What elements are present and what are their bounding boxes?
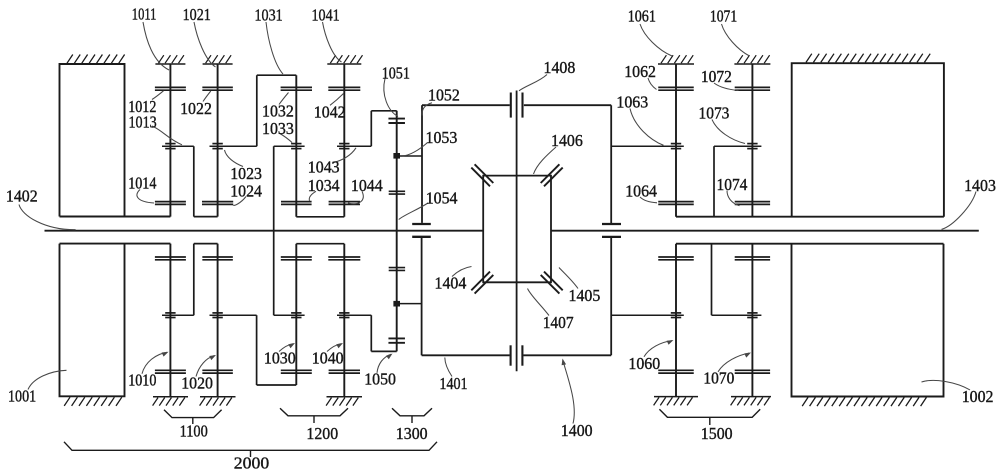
label 1023 bbox=[230, 164, 262, 183]
label 2000 bbox=[234, 454, 269, 473]
svg-text:1407: 1407 bbox=[543, 313, 574, 332]
drop from bottom rail bbox=[370, 315, 372, 351]
svg-text:1402: 1402 bbox=[6, 187, 38, 206]
frame 1401 bottom rail right of clutch 1400 bbox=[523, 354, 611, 356]
svg-text:1403: 1403 bbox=[964, 176, 996, 195]
leader 1021 bbox=[194, 22, 216, 67]
shaft 1031 bbox=[295, 75, 297, 217]
svg-text:1054: 1054 bbox=[426, 189, 458, 208]
svg-text:1021: 1021 bbox=[183, 5, 211, 24]
svg-text:1050: 1050 bbox=[364, 370, 396, 389]
shaft 1030 bbox=[295, 244, 297, 385]
rail from coupling to sleeve gear of 1070 bbox=[712, 314, 762, 316]
bevel gear mark lower-left (1404) bbox=[471, 272, 493, 294]
label 1010 bbox=[128, 371, 156, 390]
bracket 1500 bbox=[659, 409, 760, 425]
sleeve gear on shaft 1060 bbox=[671, 313, 681, 318]
rail to gear on shaft 1040 bbox=[337, 314, 371, 316]
gear 1010 lower bbox=[155, 370, 186, 373]
ground under shaft 1010 bbox=[153, 397, 188, 406]
shaft 1040 bbox=[343, 244, 345, 397]
svg-text:1013: 1013 bbox=[129, 113, 157, 132]
label 1073 bbox=[699, 103, 730, 122]
label 1002 bbox=[962, 387, 994, 406]
housing wall 1002 upper-right box bbox=[792, 63, 944, 217]
gear 1012 bbox=[155, 87, 186, 90]
label 1405 bbox=[569, 286, 601, 305]
label 1024 bbox=[230, 181, 262, 200]
input shaft 1402 (left half of main line) bbox=[45, 230, 484, 232]
frame 1052 right column bbox=[610, 105, 612, 223]
leader 1032 bbox=[279, 93, 289, 105]
label 1011 bbox=[132, 4, 157, 23]
svg-text:1408: 1408 bbox=[544, 58, 576, 77]
svg-text:1053: 1053 bbox=[426, 128, 458, 147]
shaft 1041 bbox=[343, 64, 345, 217]
link from node 1053 to frame 1052 bbox=[397, 155, 422, 157]
gear 1064 bbox=[658, 202, 694, 205]
housing wall 1001 lower-left box bbox=[60, 244, 171, 397]
gear 1072 bbox=[735, 87, 770, 90]
label 1051 bbox=[382, 64, 410, 83]
leader 1053 bbox=[403, 143, 428, 156]
leader 1400 with arrow bbox=[562, 359, 575, 424]
label 1403 bbox=[964, 176, 996, 195]
coupling drop from gear 1013 bbox=[193, 146, 195, 216]
planet carrier frame 1406 bbox=[483, 176, 551, 283]
ground under shaft 1040 bbox=[326, 397, 362, 406]
shaft 1050 bbox=[396, 111, 398, 352]
label 1014 bbox=[128, 174, 157, 193]
leader 1041 bbox=[323, 22, 342, 62]
leader 1022 bbox=[203, 91, 211, 102]
bracket 1200 bbox=[280, 408, 348, 423]
shaft 1070 bbox=[751, 244, 753, 397]
sleeve gear on shaft 1020 bbox=[210, 313, 257, 318]
gear 1033 (sleeve gear) bbox=[274, 144, 305, 149]
svg-text:1023: 1023 bbox=[230, 164, 262, 183]
label 1054 bbox=[426, 189, 458, 208]
shaft 1020 bbox=[217, 244, 219, 397]
gear 1032 bbox=[281, 87, 312, 90]
gear 1063 (sleeve gear) bbox=[671, 144, 681, 149]
label 1022 bbox=[180, 99, 212, 118]
fixed support for shaft 1021 bbox=[203, 55, 233, 64]
frame 1052 top rail left of clutch 1408 bbox=[422, 104, 510, 106]
svg-text:1060: 1060 bbox=[628, 354, 660, 373]
sleeve gear on shaft 1010 bbox=[162, 313, 194, 318]
svg-text:1071: 1071 bbox=[710, 7, 737, 26]
rail from coupling to gear 1073 bbox=[714, 145, 761, 147]
svg-text:1406: 1406 bbox=[551, 131, 583, 150]
label 1052 bbox=[428, 86, 460, 105]
gear 1073 (sleeve gear) bbox=[747, 144, 757, 149]
leader 1051 bbox=[384, 79, 398, 117]
gear 1060 lower bbox=[658, 370, 694, 373]
svg-text:1061: 1061 bbox=[628, 7, 656, 26]
svg-text:1041: 1041 bbox=[312, 6, 340, 25]
label 1072 bbox=[701, 67, 732, 86]
leader 1034 bbox=[309, 191, 316, 201]
leader 1405 bbox=[559, 268, 578, 289]
leader 1024 bbox=[233, 197, 246, 206]
leader 1064 bbox=[640, 197, 657, 203]
frame 1052 left column bbox=[421, 105, 423, 223]
svg-text:1022: 1022 bbox=[180, 99, 212, 118]
leader 1060 with arrow bbox=[644, 340, 674, 357]
gear below main line on shaft 1050 bbox=[389, 268, 405, 271]
gear 1062 bbox=[658, 87, 694, 90]
bevel gear mark upper-left (1406) bbox=[471, 164, 493, 186]
label 1074 bbox=[717, 175, 748, 194]
bevel gear mark lower-right (1405) bbox=[541, 272, 563, 294]
bevel gear mark upper-right (1406) bbox=[541, 164, 563, 186]
frame 1401 bottom rail left of clutch 1400 bbox=[422, 354, 510, 356]
output shaft 1403 (right half of main line) bbox=[551, 230, 979, 232]
svg-text:1405: 1405 bbox=[569, 286, 601, 305]
svg-text:1400: 1400 bbox=[561, 421, 593, 440]
svg-text:1030: 1030 bbox=[264, 348, 296, 367]
svg-text:1500: 1500 bbox=[701, 424, 733, 443]
sleeve gear on shaft 1040 bbox=[339, 313, 349, 318]
bracket 2000 bbox=[64, 442, 437, 457]
pinion on main line left (lower) bbox=[412, 236, 431, 238]
gear 1024 bbox=[202, 202, 233, 205]
svg-text:2000: 2000 bbox=[234, 454, 269, 473]
shaft 1061 bbox=[675, 64, 677, 217]
label 1070 bbox=[703, 369, 734, 388]
gear 1014 bbox=[155, 202, 186, 205]
leader 1013 bbox=[152, 126, 182, 145]
label 1200 bbox=[306, 424, 338, 443]
leader 1408 bbox=[519, 75, 547, 91]
sleeve gear on shaft 1070 bbox=[747, 313, 757, 318]
leader 1031 bbox=[266, 22, 283, 74]
svg-text:1001: 1001 bbox=[8, 387, 36, 406]
label 1044 bbox=[351, 176, 383, 195]
leader 1044 bbox=[348, 191, 363, 203]
leader 1030 with arrow bbox=[279, 343, 295, 352]
gear 1070 lower bbox=[735, 370, 770, 373]
pinion on main line right (lower) bbox=[602, 236, 621, 238]
housing wall 1001 upper-left box bbox=[60, 64, 171, 217]
fixed support for shaft 1011 bbox=[155, 55, 185, 64]
frame 1052 top rail right of clutch 1408 bbox=[524, 104, 611, 106]
svg-text:1024: 1024 bbox=[230, 181, 262, 200]
coupling drop between 1063 and 1073 bbox=[713, 146, 715, 217]
label 1030 bbox=[264, 348, 296, 367]
leader 1002 bbox=[922, 380, 971, 389]
svg-text:1032: 1032 bbox=[262, 102, 294, 121]
svg-text:1300: 1300 bbox=[396, 424, 428, 443]
label 1012 bbox=[128, 97, 156, 116]
leader 1072 bbox=[714, 83, 739, 91]
svg-text:1043: 1043 bbox=[308, 157, 340, 176]
label 1033 bbox=[262, 119, 294, 138]
label 1001 bbox=[8, 387, 36, 406]
synchronizer 1051 bbox=[388, 119, 405, 123]
label 1061 bbox=[628, 7, 656, 26]
gear 1054 bbox=[389, 191, 405, 194]
gear on shaft 1010 upper bbox=[155, 257, 186, 260]
bracket 1031 top rail bbox=[257, 74, 297, 76]
shaft 1010 bbox=[169, 244, 171, 397]
gear 1043 (sleeve gear) bbox=[337, 144, 371, 149]
gear 1022 bbox=[202, 87, 233, 90]
leader 1010 with arrow bbox=[142, 352, 169, 374]
pinion on main line left (upper) bbox=[412, 223, 431, 225]
label 1402 bbox=[6, 187, 38, 206]
leader 1052 bbox=[422, 103, 432, 116]
hub line to shaft 1020 bbox=[194, 243, 218, 245]
label 1400 bbox=[561, 421, 593, 440]
bracket 1031 riser bbox=[256, 75, 258, 146]
gear on shaft 1070 upper bbox=[735, 257, 770, 260]
leader 1406 bbox=[534, 147, 557, 174]
label 1042 bbox=[314, 102, 346, 121]
gear 1040 lower bbox=[329, 370, 360, 373]
label 1500 bbox=[701, 424, 733, 443]
sleeve gear on shaft 1030 bbox=[274, 313, 305, 318]
ground under shaft 1060 bbox=[654, 397, 698, 406]
label 1408 bbox=[544, 58, 576, 77]
leader 1011 bbox=[143, 22, 169, 70]
gear on shaft 1020 upper bbox=[202, 257, 233, 260]
gear 1023 (sleeve gear) bbox=[210, 144, 257, 149]
node 1053 (junction) bbox=[393, 153, 400, 159]
leader 1070 with arrow bbox=[718, 353, 751, 372]
label 1071 bbox=[710, 7, 737, 26]
label 1041 bbox=[312, 6, 340, 25]
hatching above housing 1001 bbox=[67, 55, 125, 64]
label 1040 bbox=[312, 348, 344, 367]
label 1034 bbox=[308, 176, 340, 195]
label 1053 bbox=[426, 128, 458, 147]
svg-text:1033: 1033 bbox=[262, 119, 294, 138]
gear 1030 lower bbox=[281, 370, 312, 373]
bottom rail top-right section bbox=[676, 216, 944, 218]
coupling drop from gear 1033 through main line bbox=[273, 146, 275, 315]
gear on shaft 1060 upper bbox=[658, 257, 694, 260]
shaft 1021 bbox=[217, 64, 219, 217]
label 1043 bbox=[308, 157, 340, 176]
clutch 1400 bbox=[511, 345, 523, 365]
coupling drop to sleeve of 1010 bbox=[193, 244, 195, 316]
svg-text:1062: 1062 bbox=[624, 62, 656, 81]
hatching below lower-left housing bbox=[64, 397, 122, 406]
label 1064 bbox=[625, 182, 657, 201]
svg-text:1063: 1063 bbox=[616, 93, 648, 112]
bottom rail from shaft 1050 bbox=[371, 350, 396, 352]
leader 1073 bbox=[712, 120, 745, 144]
bracket 1300 bbox=[392, 408, 432, 423]
label 1401 bbox=[439, 374, 467, 393]
leader 1040 with arrow bbox=[327, 343, 343, 352]
fixed support for shaft 1041 bbox=[327, 55, 362, 64]
bracket 1100 bbox=[164, 410, 222, 424]
label 1020 bbox=[181, 374, 213, 393]
svg-text:1034: 1034 bbox=[308, 176, 340, 195]
svg-text:1073: 1073 bbox=[699, 103, 730, 122]
link from lower node to frame 1401 bbox=[397, 303, 422, 305]
svg-text:1040: 1040 bbox=[312, 348, 344, 367]
gear 1020 lower bbox=[202, 370, 233, 373]
ground under shaft 1070 bbox=[731, 397, 771, 406]
gear 1013 (sleeve gear) bbox=[162, 144, 194, 149]
pinion on main line right (upper) bbox=[602, 223, 621, 225]
leader 1061 bbox=[640, 24, 672, 56]
svg-text:1044: 1044 bbox=[351, 176, 383, 195]
gear 1034 bbox=[281, 202, 312, 205]
leader 1050 with arrow bbox=[377, 354, 393, 373]
leader 1062 bbox=[648, 78, 657, 90]
top rail to shaft 1050 bbox=[371, 110, 396, 112]
leader 1063 bbox=[630, 109, 664, 146]
shaft 1011 bbox=[169, 64, 171, 217]
leader 1401 bbox=[445, 358, 452, 377]
shaft 1071 bbox=[751, 64, 753, 217]
svg-text:1002: 1002 bbox=[962, 387, 994, 406]
label 1062 bbox=[624, 62, 656, 81]
hatching above upper-right housing bbox=[806, 54, 930, 63]
fixed support for shaft 1071 bbox=[734, 55, 770, 64]
central shaft through 1408 and 1400 bbox=[516, 91, 518, 372]
svg-text:1401: 1401 bbox=[439, 374, 467, 393]
svg-text:1404: 1404 bbox=[435, 273, 467, 292]
label 1060 bbox=[628, 354, 660, 373]
leader 1402 bbox=[19, 205, 76, 230]
label 1300 bbox=[396, 424, 428, 443]
leader 1014 bbox=[137, 190, 154, 204]
leader 1043 bbox=[332, 148, 356, 163]
svg-text:1200: 1200 bbox=[306, 424, 338, 443]
hub line from shaft 1031 to shaft 1041 bbox=[296, 216, 344, 218]
synchronizer on shaft 1050 lower bbox=[388, 338, 405, 342]
label 1031 bbox=[255, 6, 283, 25]
gear 1074 bbox=[735, 202, 770, 205]
label 1407 bbox=[543, 313, 574, 332]
label 1406 bbox=[551, 131, 583, 150]
node on shaft 1050 below main line bbox=[393, 301, 400, 307]
leader 1407 bbox=[528, 289, 550, 316]
frame 1401 right column bbox=[610, 237, 612, 355]
gear on shaft 1040 upper bbox=[328, 257, 360, 260]
leader 1033 bbox=[279, 133, 292, 143]
svg-text:1064: 1064 bbox=[625, 182, 657, 201]
svg-text:1042: 1042 bbox=[314, 102, 346, 121]
label 1021 bbox=[183, 5, 211, 24]
leader 1001 bbox=[28, 370, 67, 389]
housing wall 1002 lower-right box bbox=[792, 244, 944, 397]
link from frame 1401 to gear on shaft 1060 bbox=[611, 314, 684, 316]
leader 1071 bbox=[722, 24, 750, 56]
leader 1020 with arrow bbox=[196, 355, 216, 377]
hatching below housing 1002 bbox=[802, 397, 926, 406]
gear on shaft 1030 upper bbox=[281, 257, 312, 260]
riser from gear 1043 to shaft 1050 bbox=[370, 111, 372, 146]
frame rail over shafts 1030/1040 bbox=[296, 243, 344, 245]
svg-text:1072: 1072 bbox=[701, 67, 732, 86]
leader 1042 bbox=[330, 94, 344, 106]
label 1032 bbox=[262, 102, 294, 121]
fixed support for shaft 1061 bbox=[658, 55, 694, 64]
svg-text:1031: 1031 bbox=[255, 6, 283, 25]
label 1050 bbox=[364, 370, 396, 389]
shaft 1060 bbox=[675, 244, 677, 397]
label 1100 bbox=[180, 422, 208, 441]
label 1013 bbox=[129, 113, 157, 132]
ground under shaft 1020 bbox=[200, 397, 236, 406]
hub line from coupling 1013 to shaft 1021 bbox=[194, 216, 218, 218]
leader 1403 bbox=[942, 192, 977, 230]
coupling drop between 1060 and 1070 bbox=[711, 244, 713, 316]
svg-text:1014: 1014 bbox=[128, 174, 157, 193]
label 1063 bbox=[616, 93, 648, 112]
label 1404 bbox=[435, 273, 467, 292]
clutch 1408 bbox=[511, 93, 523, 118]
svg-text:1074: 1074 bbox=[717, 175, 748, 194]
svg-text:1070: 1070 bbox=[703, 369, 734, 388]
svg-text:1051: 1051 bbox=[382, 64, 410, 83]
leader 1054 bbox=[399, 203, 428, 220]
leader 1404 bbox=[452, 267, 472, 277]
leader 1023 bbox=[225, 150, 244, 167]
svg-text:1100: 1100 bbox=[180, 422, 208, 441]
svg-text:1010: 1010 bbox=[128, 371, 156, 390]
link from frame 1052 to gear 1063 bbox=[611, 145, 684, 147]
gear 1042 bbox=[328, 87, 360, 90]
leader 1074 bbox=[727, 191, 740, 206]
frame 1401 left column bbox=[421, 237, 423, 355]
svg-text:1052: 1052 bbox=[428, 86, 460, 105]
leader 1012 bbox=[152, 91, 164, 100]
svg-text:1020: 1020 bbox=[181, 374, 213, 393]
svg-text:1011: 1011 bbox=[132, 4, 157, 23]
gear 1044 bbox=[329, 202, 360, 205]
top rail bottom-right section bbox=[676, 243, 944, 245]
riser from sleeve 1020 down to shaft 1030 bbox=[257, 315, 297, 385]
